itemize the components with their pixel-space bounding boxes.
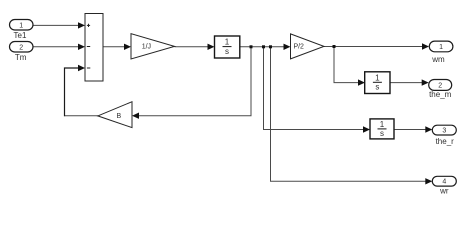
svg-text:1: 1 [225, 38, 230, 47]
svg-text:2: 2 [438, 83, 442, 90]
svg-text:2: 2 [19, 44, 23, 51]
svg-text:1: 1 [19, 22, 23, 29]
svg-text:s: s [375, 83, 379, 92]
svg-text:the_r: the_r [436, 137, 455, 146]
svg-text:1: 1 [439, 44, 443, 51]
svg-text:the_m: the_m [429, 90, 452, 99]
svg-text:1: 1 [375, 73, 380, 82]
svg-text:4: 4 [442, 179, 446, 186]
svg-text:3: 3 [442, 128, 446, 135]
svg-text:wr: wr [439, 186, 449, 195]
svg-text:P/2: P/2 [293, 44, 304, 51]
svg-text:s: s [380, 129, 384, 138]
svg-text:B: B [116, 113, 121, 120]
svg-text:wm: wm [431, 55, 445, 64]
svg-text:1: 1 [380, 120, 385, 129]
svg-text:s: s [225, 47, 229, 56]
svg-text:Tm: Tm [15, 53, 27, 62]
svg-text:Te1: Te1 [14, 31, 27, 40]
svg-text:1/J: 1/J [142, 44, 151, 51]
